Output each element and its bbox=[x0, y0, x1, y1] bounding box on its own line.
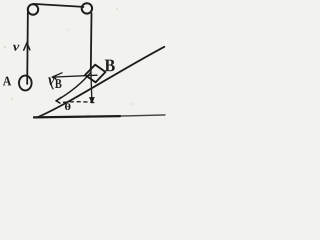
label v bbox=[13, 45, 19, 51]
arrow: horizontal component (points left) bbox=[52, 73, 97, 79]
ground line bbox=[34, 116, 120, 117]
label vB bbox=[48, 77, 54, 85]
pulley P2 (right) bbox=[82, 3, 92, 13]
wire: left string from P1 down to mass A bbox=[26, 9, 29, 84]
arrow vB (down-left along incline) bbox=[56, 72, 91, 101]
incline surface bbox=[38, 47, 165, 118]
pulley P1 (left) bbox=[28, 4, 38, 14]
vB-v bbox=[55, 79, 62, 88]
wire: top string between pulleys bbox=[33, 4, 83, 7]
wire: right string from P2 down to block B bbox=[90, 13, 93, 71]
label theta bbox=[65, 103, 71, 110]
mass A (circle) bbox=[19, 76, 32, 91]
block B (tilted square on incline) bbox=[85, 65, 106, 83]
scan speckles bbox=[4, 8, 152, 114]
label vB v tail bbox=[51, 85, 53, 89]
arrow v (upward arrowhead on left string) bbox=[24, 43, 30, 50]
label B bbox=[105, 60, 115, 72]
label A bbox=[3, 77, 11, 86]
dashed reference line bbox=[63, 102, 97, 103]
arrow: vertical component (points down, solid head) bbox=[90, 71, 93, 98]
